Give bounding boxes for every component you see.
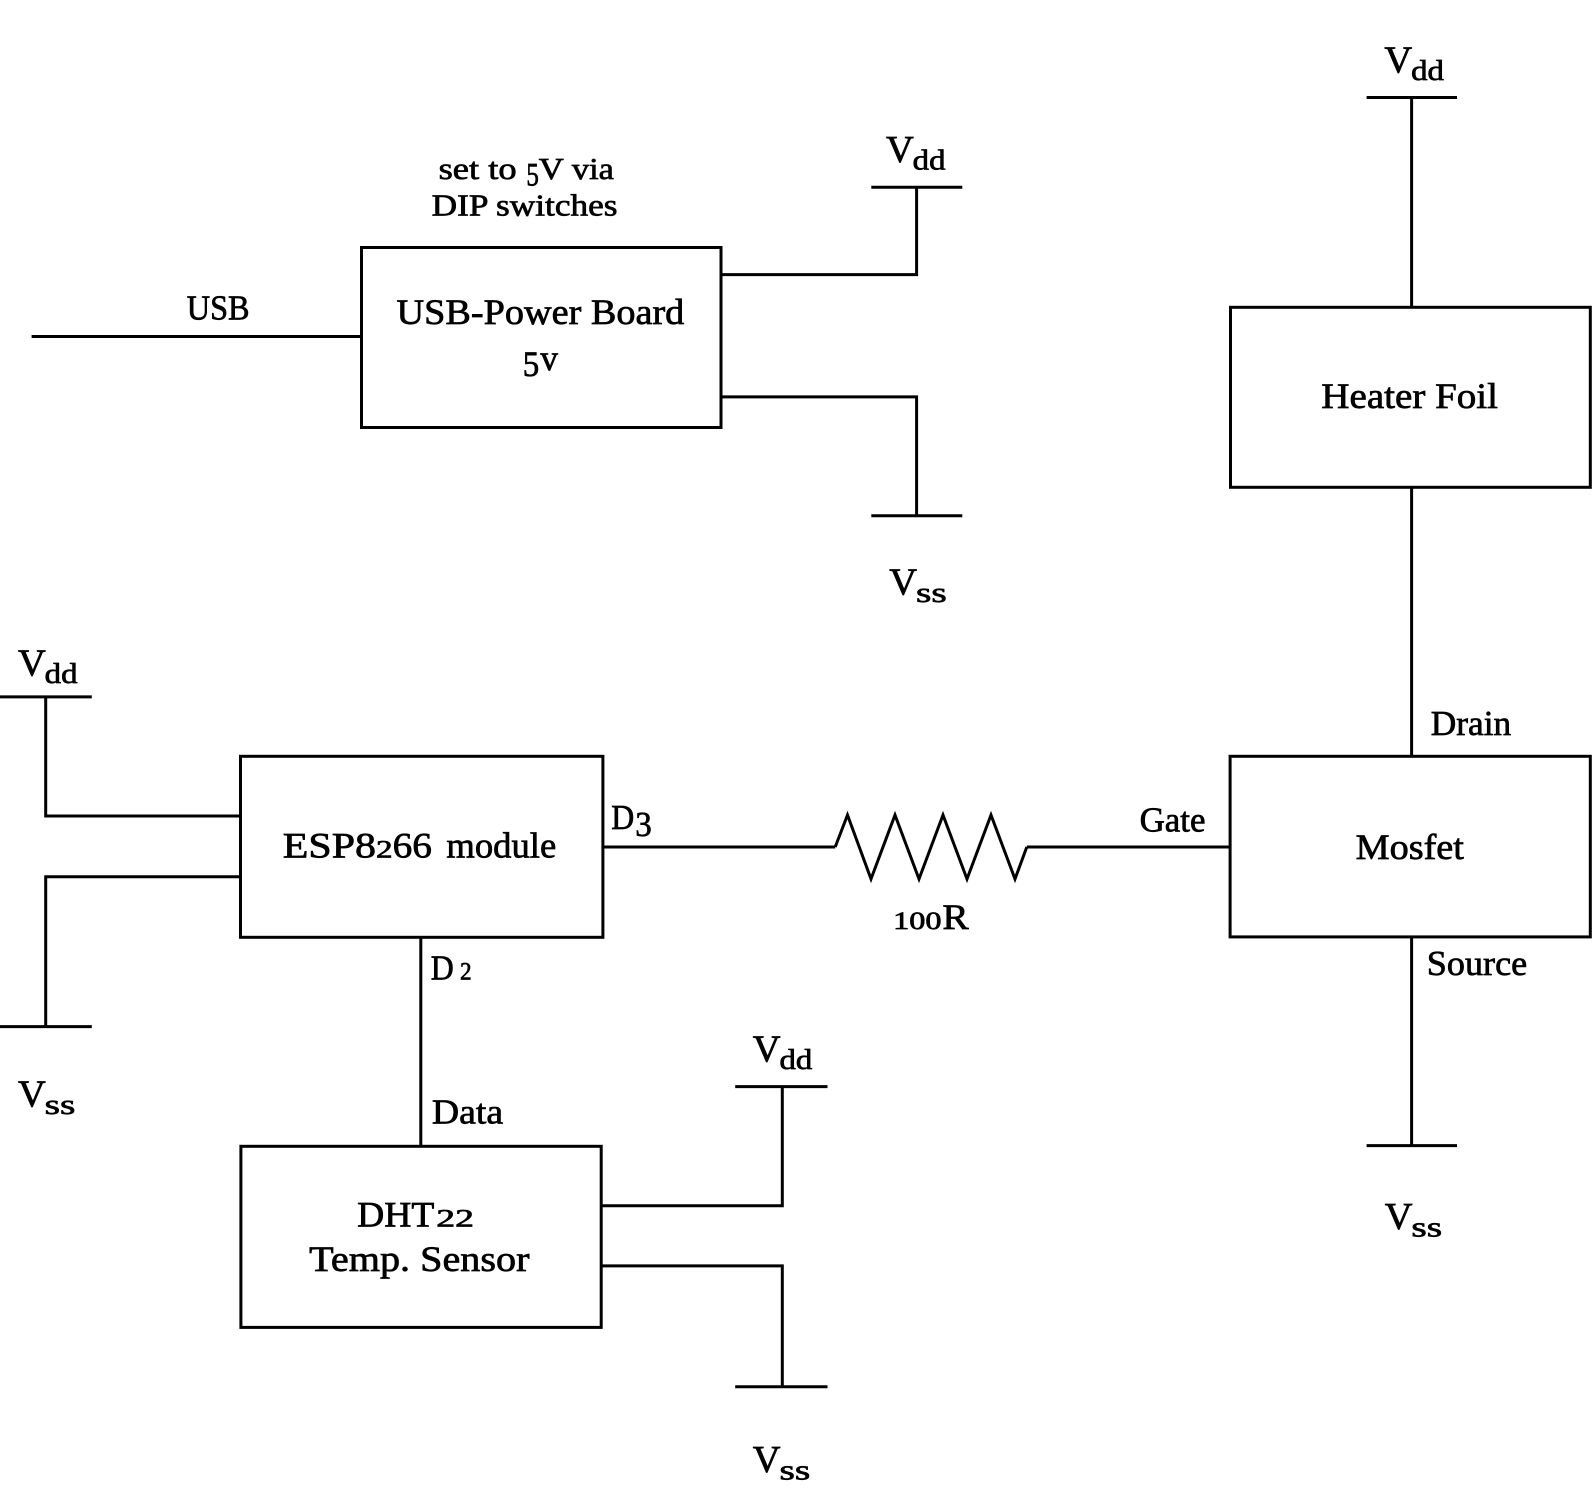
wire D2 to DHT22 data [419,937,422,1146]
svg-text:ss: ss [45,1089,76,1121]
svg-text:V: V [18,1073,46,1115]
label Heater Foil [1321,376,1498,416]
label ESP8266 module [283,825,556,865]
svg-text:Temp. Sensor: Temp. Sensor [309,1239,529,1279]
wire Vdd to ESP8266 [46,697,241,816]
wire USB input [32,335,362,338]
pin label D3 [611,798,652,844]
svg-text:dd: dd [45,658,78,690]
node label USB [187,289,250,328]
svg-text:set to: set to [439,151,517,186]
Mosfet box [1230,756,1590,937]
ESP8266 module box [241,756,603,937]
DHT22 sensor box [241,1146,601,1327]
svg-text:V: V [18,643,46,685]
svg-text:66: 66 [393,825,432,865]
svg-text:V: V [889,561,917,603]
wire ESP8266 to Vss [46,877,241,1027]
pin label Gate [1140,800,1206,839]
wire heater foil to mosfet drain [1410,487,1413,756]
annotation set to 5V via DIP switches [432,151,618,223]
value label 100R [893,897,969,937]
wire power board to Vdd [721,187,917,274]
label DHT22 Temp. Sensor [309,1195,529,1279]
net label Vss (DHT22) [753,1439,810,1487]
svg-text:D: D [611,798,634,837]
pin label Source [1427,944,1527,983]
svg-text:dd: dd [913,145,946,177]
svg-text:V: V [1385,1196,1413,1238]
ground Vss (mosfet) [1367,1144,1457,1147]
svg-text:V: V [539,151,565,186]
svg-text:22: 22 [436,1206,474,1233]
wire D3 to resistor [603,846,835,849]
svg-text:D: D [431,948,454,987]
net label Vss (mosfet) [1385,1196,1442,1244]
wire mosfet source to Vss [1410,937,1413,1146]
svg-text:V: V [753,1029,781,1071]
net label Vss (USB board) [889,561,946,609]
svg-text:v: v [540,338,558,378]
svg-text:dd: dd [1411,55,1444,87]
power Vdd rail (heater) [1367,96,1457,99]
wire DHT22 to Vss [601,1266,782,1387]
svg-text:ss: ss [780,1455,811,1487]
svg-text:3: 3 [635,805,652,844]
svg-text:dd: dd [780,1044,813,1076]
label USB-Power Board 5v [397,292,685,384]
svg-text:DIP switches: DIP switches [432,188,618,223]
net label Vdd (USB board) [886,129,946,177]
power Vdd rail (DHT22) [735,1085,827,1088]
wire DHT22 to Vdd [601,1087,782,1206]
svg-text:Drain: Drain [1431,704,1511,743]
net label Vdd (ESP8266) [18,643,78,691]
svg-text:Data: Data [432,1092,504,1131]
Heater Foil box [1231,307,1591,487]
wire Vdd to heater foil [1410,98,1413,308]
svg-text:Source: Source [1427,944,1527,983]
svg-text:ss: ss [1411,1212,1442,1244]
svg-text:2: 2 [460,958,472,985]
svg-text:R: R [942,897,968,937]
svg-text:Gate: Gate [1140,800,1206,839]
pin label D2 [431,948,472,987]
pin label Drain [1431,704,1511,743]
svg-text:USB-Power Board: USB-Power Board [397,292,685,332]
svg-text:DHT: DHT [357,1195,434,1235]
net label Vss (ESP8266) [18,1073,75,1121]
pin label Data [432,1092,504,1131]
ground Vss (DHT22) [735,1385,827,1388]
resistor R1 100R [835,815,1027,879]
wire power board to Vss [721,397,917,516]
svg-text:via: via [572,151,614,186]
svg-text:Heater Foil: Heater Foil [1321,376,1498,416]
svg-text:V: V [886,129,914,171]
net label Vdd (DHT22) [753,1029,813,1077]
power Vdd rail (ESP8266) [0,695,92,698]
svg-text:module: module [446,825,556,865]
svg-text:USB: USB [187,289,250,328]
svg-text:100: 100 [893,908,941,935]
power Vdd rail (USB board) [871,186,962,189]
ground Vss (ESP8266) [0,1025,92,1028]
ground Vss (USB board) [871,514,962,517]
net label Vdd (heater) [1384,40,1444,88]
svg-text:2: 2 [376,836,393,863]
svg-text:ESP8: ESP8 [283,825,376,865]
label Mosfet [1356,827,1464,867]
svg-text:Mosfet: Mosfet [1356,827,1464,867]
svg-text:V: V [753,1439,781,1481]
wire resistor to mosfet gate [1027,846,1230,849]
svg-text:V: V [1384,40,1412,82]
svg-text:ss: ss [916,577,947,609]
USB-Power Board box [362,248,722,428]
svg-text:5: 5 [523,344,540,384]
